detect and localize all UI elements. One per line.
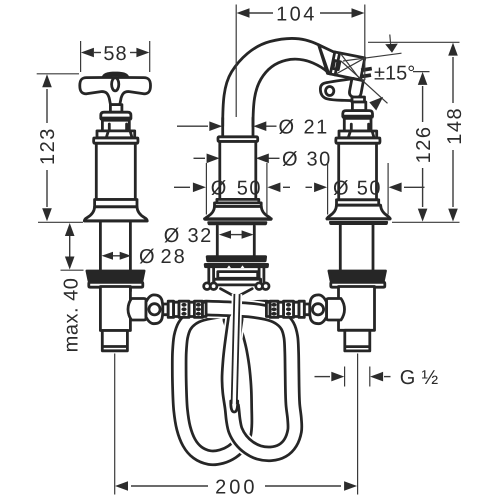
left valve: column [96, 143, 135, 199]
svg-text:Ø: Ø [282, 149, 298, 171]
svg-text:½: ½ [422, 367, 439, 389]
left valve: outlet stub [102, 331, 127, 351]
dimension 200 extension line left [114, 430, 116, 495]
dimension G1/2 arrow left [331, 372, 344, 382]
dimension D21 arrow right [253, 121, 266, 131]
right valve: bonnet cap [343, 111, 373, 117]
swivel indicator top arrow [385, 44, 398, 53]
aerator: black pivot marks [361, 67, 372, 72]
left valve: shank below deck [99, 222, 102, 291]
dimension 104 extension line right [364, 5, 366, 81]
svg-text:max. 40: max. 40 [60, 278, 82, 353]
left hose connector: nut [168, 301, 173, 317]
center waste: black flange upper band [206, 255, 267, 262]
dimension 104 arrow right [352, 8, 365, 18]
left hose connector: outlet bulge on valve [128, 299, 146, 321]
dimension 148 arrow down [448, 209, 458, 222]
center pipe: white interior [234, 294, 237, 404]
dimension 200 line [131, 485, 208, 487]
right valve: skirt step [337, 200, 379, 205]
left hose fitting: knurl band 1 [179, 301, 189, 317]
svg-text:50: 50 [357, 178, 382, 200]
dimension G1/2 arrow right [370, 372, 383, 382]
dimension D50 right arrow right [389, 183, 402, 193]
center waste: lower inner rect [214, 279, 261, 285]
left valve: lower shank [100, 287, 130, 331]
dimension 148 top reference line [368, 41, 460, 43]
right valve: hex ring [339, 131, 377, 138]
right hose connector: outlet bulge on valve [327, 299, 345, 321]
svg-text:Ø: Ø [333, 178, 349, 200]
aerator: joint band inner rect [333, 61, 340, 70]
dimension 123 top reference line [37, 73, 79, 75]
dimension 200 arrow left [115, 481, 128, 491]
left hose fitting: middle ring [189, 302, 194, 316]
dimension G1/2 line [315, 376, 331, 378]
dimension 58 line [94, 52, 101, 54]
left valve: bonnet cap [101, 112, 131, 118]
svg-text:Ø: Ø [164, 225, 180, 247]
dimension max.40 arrow up [65, 223, 75, 236]
swivel indicator lower slant line [341, 61, 388, 103]
right valve: skirt rim [327, 217, 390, 220]
svg-text:21: 21 [304, 117, 329, 139]
left valve: hex facet lines [106, 131, 132, 137]
dimension D50 center arrow left [193, 183, 206, 193]
svg-text:±15°: ±15° [374, 63, 415, 85]
left valve: stem [110, 105, 122, 113]
right valve: bonnet body [344, 118, 371, 131]
mounting plane reference line left [38, 221, 83, 223]
aerator: joint band lines [330, 52, 339, 75]
right hose fitting: end lip [266, 302, 270, 316]
mounting plane reference line right [392, 221, 460, 223]
right valve: axis line below [357, 354, 359, 421]
dimension max.40 lower reference line [61, 269, 84, 271]
right valve: cartridge [352, 102, 365, 111]
center column: skirt rim [205, 217, 272, 220]
right valve: side-view cross handle wing [320, 79, 354, 101]
dimension D30 line [194, 157, 206, 159]
right hose connector: sleeve [294, 302, 299, 316]
left valve: cross handle outline [80, 78, 151, 105]
dimension 58 arrow left [81, 48, 94, 58]
left hose connector: ball joint [146, 295, 163, 324]
left valve: washer under ring [89, 282, 143, 287]
right valve: column [339, 143, 377, 199]
svg-text:Ø: Ø [139, 246, 155, 268]
svg-text:148: 148 [444, 107, 466, 145]
spout: curved tube outer wall [223, 39, 319, 126]
dimension G1/2 extension lines [344, 367, 346, 387]
center waste: claw circles right [256, 283, 263, 290]
right valve: shank below deck [339, 223, 342, 291]
dimension 58 extension line right [149, 41, 151, 72]
hose A (left valve to right loop): white halo [206, 308, 295, 454]
svg-text:50: 50 [237, 178, 262, 200]
dimension max.40 line [69, 236, 71, 257]
aerator: spray outlet tube [349, 78, 363, 97]
dimension 104 extension line left [235, 5, 237, 118]
dimension 148 arrow up [448, 43, 458, 56]
dimension max.40 arrow down [65, 257, 75, 270]
left hose connector: sleeve [174, 302, 179, 316]
left valve: base band [94, 138, 138, 143]
center pipe: black tube [234, 294, 237, 404]
dimension D50 right arrow left [314, 183, 327, 193]
left valve: skirt step [95, 200, 137, 207]
left hose fitting: end lip [203, 302, 207, 316]
dimension D50 right line [306, 186, 313, 188]
dimension D50 center arrow right [267, 183, 280, 193]
dimension 200 extension line right [357, 421, 359, 495]
right hose connector: ball inner circle [312, 304, 323, 315]
left valve: bonnet bevel lines [109, 124, 126, 130]
dimension D32 double arrow [228, 234, 244, 236]
left valve: outlet stub thread line [103, 345, 127, 348]
left valve: bell skirt [84, 207, 147, 221]
dimension 126 arrow up [418, 72, 428, 85]
center waste: collar side walls [209, 268, 264, 285]
center pipe: white halo [234, 294, 237, 404]
svg-text:200: 200 [215, 476, 257, 498]
dimension 123 arrow up [42, 74, 52, 87]
left hose connector: neck [163, 304, 168, 315]
right valve: bonnet cap heavy base [342, 115, 373, 119]
dimension 148 line [452, 57, 454, 103]
center column: ring flange [218, 137, 258, 142]
dimension D30 arrow right [256, 154, 269, 164]
dimension 200 arrow right [344, 481, 357, 491]
right valve: wing curl eye [326, 87, 334, 96]
dimension 58 arrow right [136, 48, 149, 58]
svg-text:123: 123 [37, 127, 59, 165]
svg-text:126: 126 [413, 125, 435, 163]
right valve: bell skirt [327, 205, 390, 219]
aerator: end face line [319, 45, 329, 73]
hose A: white interior [206, 308, 295, 454]
left valve: bonnet body [102, 120, 129, 131]
svg-text:32: 32 [188, 225, 213, 247]
svg-text:Ø: Ø [211, 178, 227, 200]
right hose fitting: middle ring [278, 302, 283, 316]
swivel indicator lower arrow [369, 97, 383, 111]
dimension 58 extension line left [80, 41, 82, 72]
left hose fitting: knurl band 2 [194, 301, 202, 317]
svg-text:104: 104 [276, 3, 317, 25]
dimension 104 arrow left [237, 8, 250, 18]
right hose fitting: knurl band 1 [284, 301, 294, 317]
right valve: washer under ring [331, 282, 385, 287]
center waste: shank below skirt [216, 226, 219, 256]
center waste: black flange lower band [204, 263, 269, 268]
svg-text:28: 28 [161, 246, 187, 268]
center column: D30 column [220, 142, 256, 200]
svg-text:58: 58 [103, 43, 127, 65]
hose B: black tube [179, 308, 266, 458]
svg-text:G: G [400, 367, 416, 389]
dimension D50 center extension lines [205, 163, 207, 215]
dimension 126 line [422, 86, 424, 122]
left valve: handle hub oval hole [112, 78, 119, 91]
aerator: face cross line 2 [341, 54, 361, 80]
dimension 123 line [46, 89, 48, 123]
dimension D21 line [177, 125, 208, 127]
dimension D30 arrow left [207, 154, 220, 164]
hose A: black tube [206, 308, 295, 454]
right valve: stem neck [352, 97, 365, 102]
dimension 126 top reference line [413, 71, 430, 73]
svg-text:Ø: Ø [279, 117, 295, 139]
aerator: head box [319, 45, 365, 80]
hose B: white interior [179, 308, 266, 458]
right valve: black mounting washer [328, 270, 387, 283]
center pipe: end cap [231, 401, 238, 412]
dimension 123 arrow down [42, 208, 52, 221]
dimension D50 center line [174, 186, 190, 188]
right hose connector: neck [304, 304, 309, 315]
right valve: outlet stub thread line [346, 345, 370, 348]
left valve: black mounting washer [86, 270, 146, 283]
center waste: white notches in flange [227, 265, 245, 268]
right hose fitting: knurl band 2 [270, 301, 278, 317]
left valve: axis line below [114, 354, 116, 430]
left valve: bonnet cap heavy base [100, 117, 132, 121]
right valve: body below deck [339, 287, 375, 331]
swivel indicator upper slant line [343, 53, 402, 61]
dimension D50 right extension lines [327, 163, 329, 215]
right valve: outlet stub [345, 330, 370, 351]
center column: skirt steps [217, 199, 259, 203]
dimension 126 arrow down [418, 209, 428, 222]
aerator: face cross line 1 [336, 58, 364, 74]
hose B (right valve to left loop): white halo [179, 308, 266, 458]
right valve: base band [336, 138, 380, 143]
swivel indicator top arrow tail [389, 35, 392, 45]
center column: D21 tube [221, 118, 224, 137]
right hose connector: ball joint [310, 295, 327, 324]
left hose connector: ball inner circle [149, 304, 160, 315]
center waste: upper inner rect [218, 272, 258, 279]
left valve: skirt base line [84, 220, 147, 223]
center waste: claw circles left [204, 283, 211, 290]
left valve: hex ring [97, 131, 135, 138]
right valve: hex facet lines [348, 131, 374, 137]
center column: bell skirt [205, 207, 271, 220]
dimension 104 line [249, 12, 273, 14]
right valve: bonnet bevel lines [351, 124, 368, 130]
spout: curved tube inner wall [253, 59, 328, 126]
center waste: transition to pipe [221, 289, 253, 296]
dimension D21 arrow left [209, 121, 222, 131]
left valve: 58 handle top black bar [102, 72, 130, 79]
right hose connector: nut [299, 301, 304, 317]
dimension D28 double arrow [110, 255, 122, 257]
